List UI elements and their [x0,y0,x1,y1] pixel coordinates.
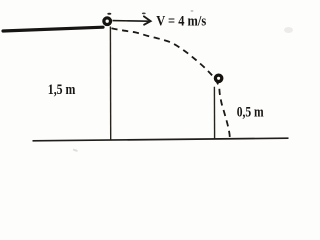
svg-text:V = 4 m/s: V = 4 m/s [156,14,206,30]
table top [3,27,103,31]
ball on trajectory [215,75,221,81]
svg-text:0,5 m: 0,5 m [237,105,264,121]
speck above text [191,10,194,11]
velocity arrow [113,20,149,23]
speck above arrowhead [142,13,146,15]
faint tick bottom left [73,149,78,152]
height line 1.5 m (left vertical) [109,27,111,141]
height line 0.5 m (right vertical) [213,87,215,140]
trajectory dashed curve [112,28,231,140]
svg-text:1,5 m: 1,5 m [48,82,76,98]
faint smudge top right [284,27,293,33]
dot above ball [107,13,111,15]
ball at table edge [104,18,111,25]
ground line [33,138,289,141]
